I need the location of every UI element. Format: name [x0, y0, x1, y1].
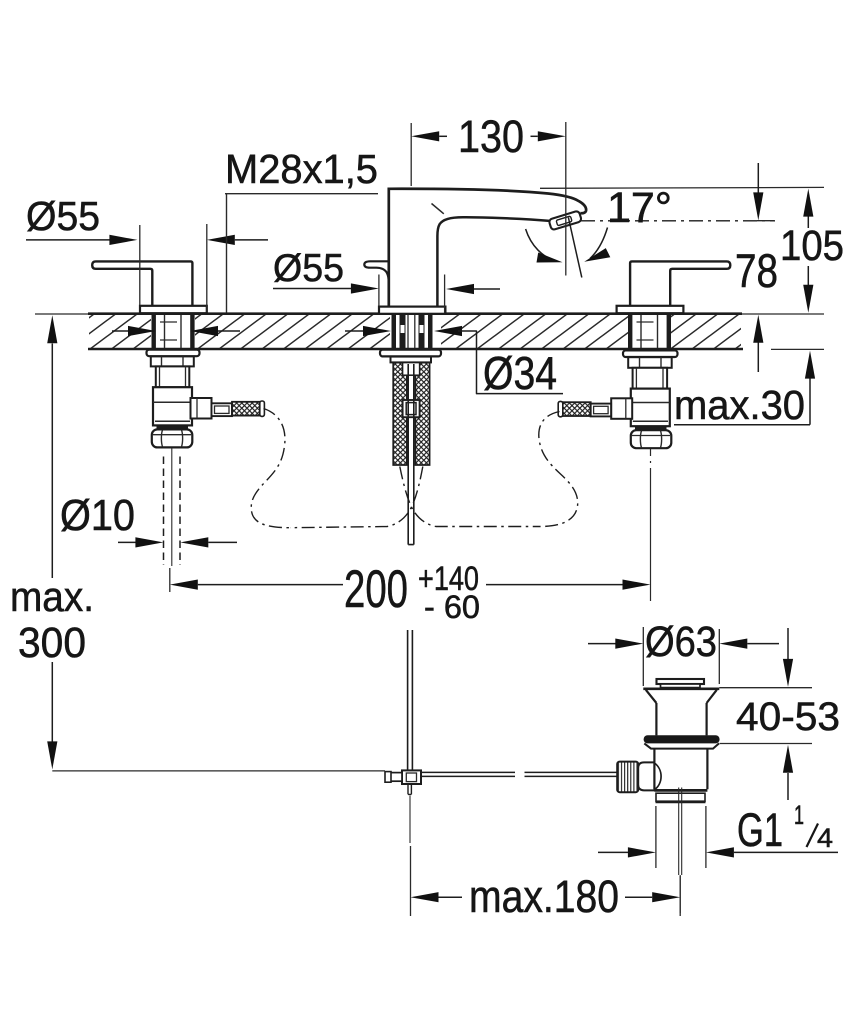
svg-text:max.30: max.30 [674, 382, 805, 428]
right valve shank through countertop [628, 315, 671, 349]
svg-text:17°: 17° [607, 184, 672, 232]
dimension 78 lower arrow (up) [753, 315, 763, 372]
dimension 105 upper arrow (up) [803, 189, 813, 228]
countertop hatched section between centre spout and right valve [441, 315, 628, 348]
right hose connector nut [591, 404, 612, 417]
countertop bottom edge extension right [771, 348, 824, 350]
centre spout threaded shank through countertop [392, 315, 433, 349]
svg-text:G1: G1 [737, 803, 783, 856]
dimension G1 1/4 right arrow [706, 847, 838, 857]
waste flange taper sides [646, 690, 717, 703]
countertop hatched section right of right valve [671, 315, 741, 348]
rod cross clamp fitting [402, 770, 421, 784]
dimension max.180 right extension line [679, 876, 681, 916]
waste collar ring [656, 793, 705, 801]
dimension Ø10 left arrow [118, 537, 163, 547]
dimension max.180 left extension line [410, 846, 412, 916]
countertop top edge [88, 312, 742, 315]
pop-up rod guide in shank [403, 400, 420, 417]
dimension max.300 upper arrow at deck top [47, 315, 57, 578]
dimension Ø55 centre: underline and left arrow [273, 283, 379, 293]
dimension 200 line right part with arrow [486, 580, 651, 590]
left valve outlet adapter [191, 398, 212, 419]
horizontal lever arm (left section) [421, 772, 515, 776]
spout top reference line to 105 dimension [540, 186, 824, 189]
dimension Ø63 right arrow [719, 639, 779, 649]
clamp pin end cap [385, 772, 391, 783]
left valve lower coupling nut [152, 429, 193, 447]
centre shank flanged washer [380, 350, 441, 357]
left hose routing centreline (dash-dot S-curve) [251, 409, 290, 528]
dimension Ø55 centre extension lines [379, 275, 445, 314]
centre hole Ø34 arrows at deck level [345, 326, 462, 336]
centre threaded shank (right half, cross-hatched) [415, 363, 429, 465]
dimension Ø55 left handle: right arrow [207, 235, 268, 245]
dimension Ø63 extension lines [643, 627, 719, 686]
svg-text:1: 1 [794, 800, 804, 830]
right valve lower coupling nut [631, 430, 672, 448]
svg-text:130: 130 [458, 111, 524, 162]
lever ball joint knurled knob [617, 762, 638, 793]
right handle lever and post [630, 261, 730, 306]
svg-text:max.180: max.180 [469, 871, 619, 922]
clamp left pin [391, 773, 403, 782]
dimension 40-53 lower arrow (up) [783, 745, 793, 800]
Ø34 leader line to label [458, 331, 563, 394]
waste flange lip below seal [644, 743, 719, 748]
dimension Ø55 left handle extension lines [140, 224, 207, 312]
centre hose centreline crossing (left limb) [400, 467, 540, 527]
waste flange top edge [643, 687, 719, 690]
right valve outlet adapter [611, 398, 632, 419]
left handle base cap [140, 306, 207, 313]
fraction slash [807, 824, 819, 848]
waste internal overflow slot lines [679, 788, 682, 876]
pop-up rod upper section [408, 364, 414, 545]
svg-text:max.: max. [10, 573, 94, 620]
M28x1,5 label underline and leader to shank [225, 194, 378, 313]
17 degree slanted outlet axis line [568, 218, 581, 278]
svg-text:Ø63: Ø63 [645, 618, 717, 666]
left hose end cap [260, 401, 265, 416]
centre threaded shank (left half, cross-hatched) [393, 363, 407, 465]
countertop hatched section between left valve and centre spout [195, 315, 390, 348]
dimension Ø63 left arrow [588, 639, 643, 649]
right handle base cap [617, 306, 684, 313]
pop-up rod lower section [408, 630, 413, 770]
dimension 78 upper arrow (down) [753, 163, 763, 220]
svg-text:4: 4 [817, 823, 833, 853]
waste plug lip [661, 684, 701, 688]
dimension 130 line and arrows [411, 131, 566, 141]
centre shank hex nut [391, 357, 432, 363]
waste centreline to max.180 dimension [679, 875, 681, 913]
waste neck sides [656, 703, 706, 735]
waste rubber seal ring (black) [644, 735, 720, 743]
countertop top edge extension left [35, 313, 88, 315]
left valve body [153, 387, 192, 425]
ball joint socket on waste body [638, 762, 661, 790]
left valve hex nut [151, 356, 194, 366]
17 degree angle arc right with arrow [584, 228, 610, 262]
svg-text:Ø34: Ø34 [483, 347, 557, 399]
dimension max.30 arrow (up at deck underside) [674, 351, 815, 425]
svg-text:200: 200 [344, 560, 408, 619]
waste body bottom edge [654, 789, 707, 792]
aerator (mousseur) at spout outlet [549, 211, 582, 231]
svg-text:40-53: 40-53 [736, 695, 840, 739]
left valve seal ring [157, 425, 189, 429]
svg-text:M28x1,5: M28x1,5 [225, 146, 378, 192]
left valve flanged washer [147, 350, 200, 357]
waste lower body sides [654, 749, 707, 790]
17 degree angle arc left with arrow [526, 229, 563, 263]
svg-text:Ø55: Ø55 [26, 193, 100, 239]
left handle lever and post [92, 261, 192, 306]
spout bend inner contour line [432, 204, 444, 214]
pop-up pull rod knob at spout rear [364, 261, 389, 279]
dimension 40-53 seal-bottom extension line [720, 743, 812, 745]
dimension 40-53 flange-top extension line [719, 687, 812, 689]
lever arm level reference line [52, 770, 385, 772]
left hose connector nut [212, 403, 233, 416]
waste top cap (plug lid) [657, 679, 705, 684]
spout underside and inner corner fillet [437, 217, 551, 306]
right valve flanged washer [623, 350, 678, 357]
svg-text:- 60: - 60 [424, 589, 480, 625]
right valve hex nut [628, 357, 672, 368]
dimension max.300 lower arrow [47, 662, 57, 769]
dimension Ø55 left handle: text underline and left arrow [26, 235, 137, 245]
pop-up pull rod alternate position (dashed, Ø10) [164, 448, 181, 566]
countertop hatched section left of left valve [89, 315, 151, 348]
dimension Ø55 centre: right arrow [446, 284, 500, 294]
spout base plate (escutcheon) [379, 307, 445, 314]
dimension 200 left extension line [169, 568, 171, 592]
left flexible hose braided section [232, 402, 263, 416]
dimension 130 extension lines [411, 122, 566, 276]
right valve body [631, 389, 670, 427]
countertop top edge extension right [742, 313, 824, 315]
dimension 105 lower arrow (down) [803, 266, 813, 313]
centre hose centreline crossing (right limb) [290, 467, 423, 528]
shank top window [403, 363, 420, 376]
left hole diameter arrows at deck level [112, 326, 240, 336]
right hose routing centreline (dash-dot S-curve) [539, 412, 578, 527]
svg-text:Ø10: Ø10 [60, 491, 135, 540]
right valve upper tube [633, 368, 668, 389]
svg-text:78: 78 [735, 244, 778, 297]
dimension max.180 right arrow [625, 892, 680, 902]
spout body outline [389, 189, 586, 307]
svg-text:Ø55: Ø55 [273, 247, 344, 290]
dimension G1 1/4 left arrow [598, 847, 656, 857]
dimension max.180 left arrow [411, 892, 463, 902]
right valve centreline down to 200 dimension [650, 449, 652, 601]
right valve seal ring [635, 426, 667, 430]
dimension Ø10 right arrow [180, 537, 237, 547]
left valve shank through countertop [152, 315, 195, 349]
countertop bottom edge [88, 348, 743, 351]
clamp lower pin [408, 784, 411, 794]
right hose end cap [558, 401, 563, 416]
svg-text:300: 300 [18, 619, 86, 667]
dimension 200 line left part with arrow [170, 580, 343, 590]
rod centreline below clamp [409, 796, 411, 844]
right flexible hose braided section [560, 402, 591, 416]
horizontal lever arm (right section) [525, 772, 617, 776]
dimension G1 1/4 extension lines [656, 806, 706, 868]
spout outlet dash-dot reference line (17 degrees) [581, 220, 775, 222]
svg-text:105: 105 [780, 222, 844, 270]
dimension 40-53 upper arrow (down) [783, 628, 793, 687]
dimension 78 outlet-level tick [757, 220, 774, 222]
left valve upper tube [156, 366, 190, 387]
waste collar bottom thick edge [656, 801, 706, 804]
